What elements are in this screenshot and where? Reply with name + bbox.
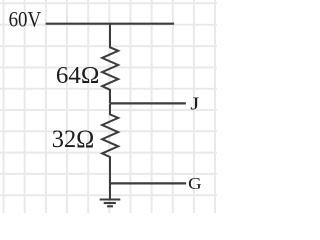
- resistor R2 32 ohm (zigzag with leads): [102, 103, 118, 199]
- resistor R1 64 ohm (zigzag with leads): [102, 24, 118, 103]
- svg-text:64Ω: 64Ω: [56, 62, 100, 89]
- wire: top supply rail: [46, 23, 174, 25]
- ground symbol: [100, 198, 121, 200]
- svg-text:J: J: [190, 93, 199, 113]
- wire: node G branch: [110, 182, 186, 184]
- wire: node J branch: [110, 102, 186, 104]
- svg-text:60V: 60V: [9, 6, 42, 31]
- svg-text:G: G: [188, 174, 202, 193]
- svg-text:32Ω: 32Ω: [52, 126, 95, 153]
